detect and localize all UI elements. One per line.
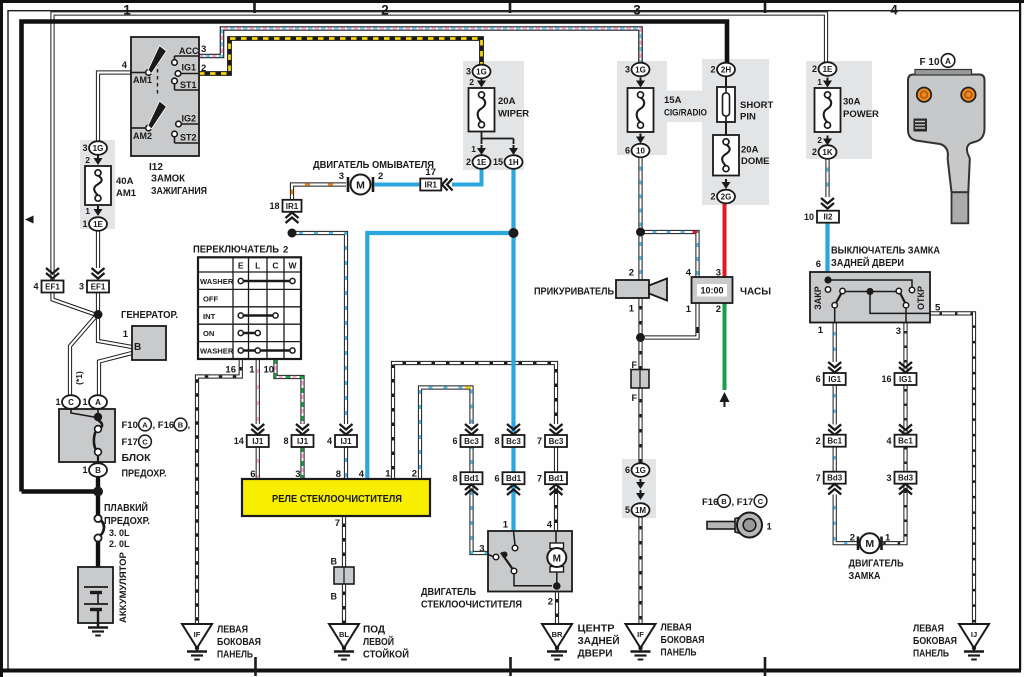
svg-text:Bc3: Bc3: [464, 437, 479, 446]
svg-text:A: A: [945, 57, 951, 66]
wire: connector 14-IJ1 to relay pin6 (white w/ pink dashes): [256, 447, 260, 479]
svg-text:ЦЕНТР: ЦЕНТР: [578, 624, 615, 635]
shade: 15A CIG/RADIO fuse area: [617, 61, 667, 155]
arrow at green wire end: [724, 400, 726, 407]
svg-text:1: 1: [82, 465, 87, 475]
switch contacts row WASHER(top): [241, 280, 293, 282]
svg-text:ДВИГАТЕЛЬ: ДВИГАТЕЛЬ: [849, 559, 904, 570]
ignition switch internals: [131, 56, 199, 143]
svg-text:2: 2: [469, 77, 474, 87]
svg-text:, F17: , F17: [732, 497, 754, 508]
svg-text:4: 4: [33, 282, 38, 292]
wire: switch E column to left side panel ground IF (white w/ black dashes): [197, 359, 241, 624]
washer switch table: [198, 257, 301, 359]
svg-text:6: 6: [625, 146, 630, 156]
svg-text:Bd1: Bd1: [506, 474, 522, 483]
svg-text:3. 0L: 3. 0L: [109, 528, 130, 538]
svg-text:IR1: IR1: [425, 181, 438, 190]
ground BL (under left pillar): [329, 624, 359, 648]
svg-text:БЛОК: БЛОК: [122, 453, 152, 464]
zone tick marks bottom: [256, 657, 766, 676]
svg-text:ПАНЕЛЬ: ПАНЕЛЬ: [913, 649, 949, 660]
wire: junction to clock pin4 (white w/ blue dashes): [641, 232, 698, 277]
connector 4-EF1: [46, 268, 59, 279]
wire: POWER fuse 1K to connector II2 (white w/ blue dashes): [825, 159, 829, 198]
wire: blue solid branch to wiper relay pin4: [367, 233, 513, 479]
svg-text:ЗАДНЕЙ ДВЕРИ: ЗАДНЕЙ ДВЕРИ: [831, 256, 904, 269]
svg-text:C: C: [272, 261, 278, 271]
svg-text:4: 4: [327, 436, 332, 446]
junction node: washer switch W column: [288, 229, 297, 238]
svg-text:3: 3: [82, 143, 87, 153]
svg-text:3: 3: [479, 544, 484, 555]
svg-text:ОТКР: ОТКР: [916, 286, 926, 310]
svg-text:6: 6: [816, 259, 821, 270]
svg-text:1E: 1E: [93, 220, 103, 229]
svg-text:СТЕКЛООЧИСТИТЕЛЯ: СТЕКЛООЧИСТИТЕЛЯ: [421, 600, 522, 611]
svg-text:3: 3: [79, 282, 84, 292]
svg-text:B: B: [134, 342, 141, 353]
wire: connector 6-Bc3 to 8-Bd1 segment (white w/ blue dashes): [469, 447, 473, 473]
svg-text:4: 4: [547, 520, 553, 531]
svg-text:M: M: [553, 554, 561, 565]
svg-text:,: ,: [188, 420, 191, 431]
junction node: lighter top: [636, 228, 645, 237]
svg-text:ЗАМОК: ЗАМОК: [151, 174, 186, 185]
svg-text:1: 1: [471, 144, 476, 154]
connector 18-IR1: [283, 200, 302, 212]
svg-text:2: 2: [412, 469, 417, 480]
svg-text:1E: 1E: [823, 65, 833, 74]
svg-text:1: 1: [503, 520, 509, 531]
lock motor M: [858, 537, 882, 551]
svg-text:ПРЕДОХР.: ПРЕДОХР.: [104, 516, 150, 527]
svg-text:2: 2: [812, 64, 817, 74]
svg-text:EF1: EF1: [45, 283, 60, 292]
svg-text:15A: 15A: [664, 95, 682, 106]
svg-text:1: 1: [249, 365, 255, 376]
svg-text:SHORT: SHORT: [740, 100, 773, 111]
svg-text:1G: 1G: [635, 466, 646, 475]
svg-text:РЕЛЕ СТЕКЛООЧИСТИТЕЛЯ: РЕЛЕ СТЕКЛООЧИСТИТЕЛЯ: [272, 493, 402, 505]
svg-text:IJ1: IJ1: [340, 437, 352, 446]
connector 6-10 below CIG fuse: [640, 134, 642, 138]
connector 7-Bc3: [550, 424, 563, 435]
svg-text:БОКОВАЯ: БОКОВАЯ: [661, 635, 705, 646]
svg-text:ДВИГАТЕЛЬ ОМЫВАТЕЛЯ: ДВИГАТЕЛЬ ОМЫВАТЕЛЯ: [313, 160, 434, 171]
fuse block box: [59, 409, 115, 462]
wire: connector B to ground BL (white w/ black dashes): [342, 584, 346, 624]
wire: door-lock switch pin3 chain to lock motor pin1 (white w/ black dashes): [880, 323, 906, 544]
wiper motor internals: [514, 531, 516, 545]
connector 6-Bd1: [503, 472, 525, 484]
svg-text:ЛЕВАЯ: ЛЕВАЯ: [913, 624, 944, 635]
connector 15-1H: [513, 145, 515, 149]
svg-text:F: F: [632, 360, 638, 370]
generator box: [132, 326, 166, 360]
svg-text:IF: IF: [637, 630, 644, 639]
junction: blue node at 1H column: [509, 228, 519, 238]
switch contacts row INT: [241, 314, 276, 316]
svg-text:5: 5: [935, 303, 941, 314]
svg-text:DOME: DOME: [741, 156, 770, 167]
svg-text:6: 6: [452, 436, 457, 446]
svg-text:F: F: [632, 393, 638, 403]
wire: blue solid washer motor pin2 to connector 17-IR1: [375, 183, 421, 187]
svg-text:ST1: ST1: [180, 80, 197, 90]
connector 3-Bd3: [895, 472, 917, 484]
svg-text:IR1: IR1: [286, 202, 299, 211]
svg-text:6: 6: [250, 469, 255, 480]
svg-text:B: B: [331, 592, 338, 602]
svg-text:ПЕРЕКЛЮЧАТЕЛЬ: ПЕРЕКЛЮЧАТЕЛЬ: [193, 245, 279, 256]
connector 4-IJ1: [340, 424, 353, 435]
svg-text:ЛЕВАЯ: ЛЕВАЯ: [217, 625, 248, 636]
wire: wiper relay pin7 to connector B (white w/ black dashes): [342, 516, 346, 567]
switch contacts row WASHER(bottom): [241, 349, 293, 351]
svg-text:8: 8: [283, 436, 288, 446]
svg-text:E: E: [238, 261, 244, 271]
svg-text:1K: 1K: [822, 148, 832, 157]
wire: wiper relay pin1 to connector 7-Bc3 (white w/ black dashes): [393, 363, 556, 479]
svg-text:ДВИГАТЕЛЬ: ДВИГАТЕЛЬ: [421, 587, 476, 598]
wire: connector 8-Bd1 to wiper motor pin3 (white w/ blue dashes): [472, 484, 489, 553]
wire: connector 8-IJ1 to relay pin3 (white w/ green-pink dashes): [300, 447, 304, 479]
fuse 20A DOME: [725, 122, 727, 135]
svg-text:2G: 2G: [721, 193, 732, 202]
svg-text:IJ1: IJ1: [297, 437, 309, 446]
wire: junction to fuse block 1C (white): [70, 316, 96, 396]
svg-text:OFF: OFF: [203, 295, 219, 304]
wire: battery positive thick feed (battery to top rail to SHORT PIN 2H): [22, 22, 728, 492]
svg-text:4: 4: [890, 3, 898, 18]
svg-text:4: 4: [686, 268, 692, 279]
svg-text:1: 1: [385, 469, 391, 480]
wire: connector 4-IJ1 to relay pin8 (white w/ blue dashes): [344, 447, 348, 479]
svg-text:L: L: [255, 261, 260, 271]
junction node: lighter bottom / clock pin1: [636, 333, 645, 342]
svg-text:F 10: F 10: [920, 57, 940, 68]
svg-text:2: 2: [85, 155, 90, 165]
wire: 40A fuse 1E to EF1-3 (white): [96, 231, 100, 269]
wire: junction to lighter pin2 (white w/ blue dashes): [638, 236, 642, 280]
svg-text:1: 1: [82, 219, 87, 229]
svg-text:B: B: [95, 466, 101, 475]
svg-text:BL: BL: [339, 630, 349, 639]
svg-text:A: A: [95, 398, 101, 407]
wire: connector 1M to ground IF (white w/ black dashes): [638, 517, 642, 624]
svg-text:ЗАКР: ЗАКР: [813, 286, 823, 310]
clock: [692, 277, 733, 303]
svg-text:20A: 20A: [498, 96, 516, 107]
shade: 1G-1M junction connector area: [622, 459, 656, 518]
svg-text:ГЕНЕРАТОР.: ГЕНЕРАТОР.: [121, 310, 178, 321]
connector 7-Bd3: [824, 472, 846, 484]
ground IJ (left side panel): [959, 624, 989, 648]
svg-text:ПРИКУРИВАТЕЛЬ: ПРИКУРИВАТЕЛЬ: [534, 287, 614, 298]
svg-text:Bc3: Bc3: [506, 437, 521, 446]
wire: ignition IG1 to WIPER fuse 1G (yellow w/ black stripes): [199, 39, 482, 74]
connector 2-1E above POWER fuse: [819, 62, 837, 76]
wire: wiper motor pin2 to ground BR (white w/ black dashes): [555, 592, 559, 624]
svg-text:4: 4: [359, 469, 365, 480]
svg-text:Bc1: Bc1: [827, 437, 842, 446]
wire: washer motor pin3 to connector 18-IR1 (white w/ orange dashes): [292, 185, 346, 201]
washer motor M: [348, 177, 373, 192]
svg-text:40A: 40A: [116, 176, 134, 187]
svg-text:ПЛАВКИЙ: ПЛАВКИЙ: [104, 501, 148, 514]
arrow marker on thick feed wire: [25, 216, 34, 224]
battery box: [78, 567, 113, 623]
connector 1-B on fuse block: [89, 463, 107, 477]
svg-text:POWER: POWER: [843, 109, 879, 120]
svg-text:ЗАЖИГАНИЯ: ЗАЖИГАНИЯ: [151, 186, 207, 197]
svg-text:1E: 1E: [477, 158, 487, 167]
fuse 30A POWER: [815, 88, 841, 132]
svg-text:ST2: ST2: [180, 133, 197, 143]
connector 8-Bd1: [461, 472, 483, 484]
svg-text:Bd3: Bd3: [898, 474, 914, 483]
svg-text:1: 1: [85, 206, 90, 216]
svg-text:8: 8: [452, 473, 457, 483]
svg-text:3: 3: [625, 65, 630, 75]
connector 6-Bc3: [465, 424, 478, 435]
connector 1-C on fuse block: [62, 395, 80, 409]
svg-text:WASHER: WASHER: [200, 347, 234, 356]
svg-text:3: 3: [633, 3, 641, 18]
svg-text:1M: 1M: [635, 506, 646, 515]
wire: CIG fuse 10 to junction (white w/ blue dashes): [638, 158, 642, 233]
svg-text:IG1: IG1: [181, 63, 196, 73]
svg-text:INT: INT: [203, 312, 216, 321]
svg-text:A: A: [142, 421, 148, 430]
svg-text:17: 17: [425, 167, 436, 178]
F10 latch detail: [914, 119, 928, 132]
connector 2-1E: [481, 145, 483, 149]
svg-text:ПРЕДОХР.: ПРЕДОХР.: [122, 469, 167, 480]
svg-text:1G: 1G: [93, 144, 104, 153]
connector 1-A on fuse block: [89, 395, 107, 409]
svg-text:4: 4: [886, 436, 891, 446]
svg-text:2: 2: [283, 245, 288, 256]
svg-text:1: 1: [55, 397, 60, 407]
svg-text:(*1): (*1): [74, 371, 84, 385]
svg-text:2: 2: [201, 63, 206, 74]
svg-text:15: 15: [493, 157, 503, 167]
svg-text:CIG/RADIO: CIG/RADIO: [664, 108, 707, 119]
svg-text:ЧАСЫ: ЧАСЫ: [740, 287, 771, 298]
svg-text:WIPER: WIPER: [498, 109, 529, 120]
wire: blue solid WIPER fuse 1H down to wiper motor pin1: [511, 169, 515, 531]
svg-text:3: 3: [896, 326, 901, 337]
svg-text:7: 7: [816, 473, 821, 483]
svg-text:C: C: [142, 438, 148, 447]
fuse 40A AM1: [85, 166, 111, 205]
wire: blue solid connector II2 to door-lock switch pin6: [825, 223, 829, 279]
svg-text:2: 2: [629, 268, 634, 279]
svg-text:I12: I12: [149, 162, 163, 173]
svg-text:1: 1: [818, 325, 824, 336]
svg-text:F10: F10: [122, 420, 138, 431]
svg-text:F16: F16: [702, 497, 718, 508]
svg-text:БОКОВАЯ: БОКОВАЯ: [217, 637, 261, 648]
svg-text:ПОД: ПОД: [363, 625, 385, 636]
svg-text:14: 14: [234, 436, 244, 446]
svg-text:2: 2: [548, 597, 553, 608]
svg-text:2: 2: [710, 65, 715, 75]
fuse block internal fusible element: [71, 409, 94, 417]
svg-text:18: 18: [269, 201, 279, 211]
svg-text:16: 16: [225, 365, 236, 376]
connector 8-Bc3: [507, 424, 520, 435]
wire: red solid DOME fuse 2G to clock pin3: [723, 204, 727, 279]
ground IF (left side panel): [182, 624, 212, 648]
door lock switch internals: [828, 280, 912, 287]
svg-text:1: 1: [767, 522, 773, 533]
connector 2-2G: [725, 179, 727, 183]
wire: blue solid connector 17-IR1 to WIPER fuse 1E: [452, 169, 482, 185]
svg-text:10: 10: [804, 212, 814, 222]
F10 connector body: [908, 75, 985, 193]
svg-text:3: 3: [466, 67, 471, 77]
svg-text:B: B: [331, 557, 338, 567]
connector 8-IJ1: [296, 424, 309, 435]
svg-text:Bc3: Bc3: [549, 437, 564, 446]
junction node: battery feed: [93, 487, 103, 497]
door lock switch box: [810, 272, 930, 323]
wire: door-lock switch pin5 to ground IJ (white w/ black dashes): [930, 313, 974, 623]
svg-text:2. 0L: 2. 0L: [109, 539, 130, 549]
switch contacts row ON: [241, 332, 258, 334]
svg-text:2H: 2H: [721, 66, 731, 75]
svg-text:IG2: IG2: [181, 114, 196, 124]
svg-text:BR: BR: [552, 630, 563, 639]
svg-text:IG1: IG1: [899, 375, 912, 384]
svg-text:30A: 30A: [843, 97, 861, 108]
svg-text:1: 1: [123, 329, 129, 340]
connector 3-1G top of 40A fuse: [97, 155, 99, 159]
svg-text:M: M: [356, 180, 365, 192]
svg-text:Bc1: Bc1: [898, 437, 913, 446]
svg-text:M: M: [865, 538, 874, 550]
svg-text:2: 2: [850, 533, 855, 544]
wire: fuse block 1B to fusible link to battery (thick): [96, 476, 100, 515]
svg-text:ВЫКЛЮЧАТЕЛЬ ЗАМКА: ВЫКЛЮЧАТЕЛЬ ЗАМКА: [831, 246, 940, 257]
svg-text:2: 2: [381, 3, 389, 18]
svg-text:IF: IF: [194, 630, 201, 639]
wire: clock pin1 to lighter junction (white): [645, 303, 698, 338]
svg-text:C: C: [68, 398, 74, 407]
svg-text:Bd1: Bd1: [464, 474, 480, 483]
ground IF (left side panel, second): [626, 624, 656, 648]
svg-text:2: 2: [378, 171, 383, 182]
svg-text:2: 2: [816, 436, 821, 446]
svg-text:3: 3: [339, 171, 344, 182]
svg-text:B: B: [721, 497, 727, 506]
connector 2-Bc1: [828, 424, 841, 435]
svg-text:ON: ON: [203, 329, 214, 338]
svg-text:6: 6: [625, 465, 630, 475]
wire: EF1-4 to top rail to POWER fuse 1E (white): [53, 14, 827, 282]
svg-text:БОКОВАЯ: БОКОВАЯ: [913, 636, 957, 647]
svg-text:Bd3: Bd3: [827, 474, 843, 483]
shade: 40A AM1 fuse area: [80, 140, 115, 229]
svg-text:IJ: IJ: [971, 630, 977, 639]
wire: EF1-3 to generator junction (white): [96, 292, 100, 315]
connector 3-EF1: [92, 268, 105, 279]
ignition switch I12 box: [131, 37, 199, 156]
svg-text:1G: 1G: [476, 68, 487, 77]
svg-text:ПАНЕЛЬ: ПАНЕЛЬ: [217, 650, 253, 661]
svg-text:7: 7: [537, 436, 542, 446]
wire: generator B to fuse block 1A (white): [99, 353, 132, 396]
wire: door-lock switch pin1 chain to lock motor pin2 (white w/ blue dashes): [833, 323, 837, 363]
connector 2-2H: [717, 63, 735, 77]
fuse 20A WIPER: [469, 88, 495, 132]
svg-text:2: 2: [812, 147, 817, 157]
connector 4-Bc1: [899, 424, 912, 435]
svg-text:ЛЕВОЙ: ЛЕВОЙ: [363, 635, 394, 648]
svg-text:2: 2: [466, 157, 471, 167]
svg-text:II2: II2: [824, 213, 833, 222]
svg-text:1: 1: [629, 304, 635, 315]
svg-text:C: C: [758, 497, 764, 506]
svg-text:20A: 20A: [741, 145, 759, 156]
wire: washer junction to connector 4-IJ1 (white w/ blue dashes): [292, 233, 346, 424]
svg-text:1G: 1G: [635, 66, 646, 75]
connector 6-1G to 5-1M pair: [632, 463, 650, 477]
svg-text:WASHER: WASHER: [200, 277, 234, 286]
wire: EF1-4 branch diagonal into junction (white): [53, 292, 99, 316]
svg-text:ЗАМКА: ЗАМКА: [849, 571, 881, 582]
shade: 30A POWER fuse area: [806, 61, 872, 159]
wiper relay (yellow): [242, 479, 430, 516]
svg-text:8: 8: [336, 469, 341, 480]
svg-text:10: 10: [264, 365, 275, 376]
SHORT PIN element: [717, 87, 735, 122]
WIPER fuse split to 1E and 1H: [482, 132, 514, 145]
svg-text:AM2: AM2: [133, 131, 152, 141]
svg-text:IG1: IG1: [828, 375, 841, 384]
wiper motor box: [488, 531, 572, 592]
svg-text:ACC: ACC: [179, 46, 199, 56]
svg-text:, F16: , F16: [153, 420, 175, 431]
svg-text:1: 1: [82, 397, 87, 407]
svg-text:1: 1: [885, 533, 891, 544]
F10 orange terminals: [917, 88, 931, 102]
svg-text:7: 7: [537, 473, 542, 483]
wire: lighter pin1 to F connector and ground IF (white w/ black dashes): [638, 298, 642, 370]
svg-text:EF1: EF1: [91, 283, 106, 292]
shade: SHORT PIN / DOME fuse area: [702, 59, 769, 205]
svg-text:ПАНЕЛЬ: ПАНЕЛЬ: [661, 648, 697, 659]
connector 3-1G above WIPER fuse: [473, 65, 491, 79]
page frame: outer black edges: [0, 0, 1024, 3]
svg-text:AM1: AM1: [116, 188, 137, 199]
svg-text:4: 4: [122, 60, 128, 71]
connector 2-1K below POWER fuse: [827, 136, 829, 140]
wire: ignition AM1 pin4 to 40A fuse 1G (white): [98, 73, 131, 142]
svg-text:IJ1: IJ1: [252, 437, 264, 446]
key cylinder icon: [707, 522, 737, 530]
connector 16-IG1: [899, 362, 912, 373]
zone tick marks top: [255, 2, 766, 13]
battery ground: [97, 624, 99, 628]
svg-text:СТОЙКОЙ: СТОЙКОЙ: [363, 648, 409, 661]
svg-text:2: 2: [817, 135, 822, 145]
connector 3-1G above CIG fuse: [632, 63, 650, 77]
svg-text:3: 3: [886, 473, 891, 483]
